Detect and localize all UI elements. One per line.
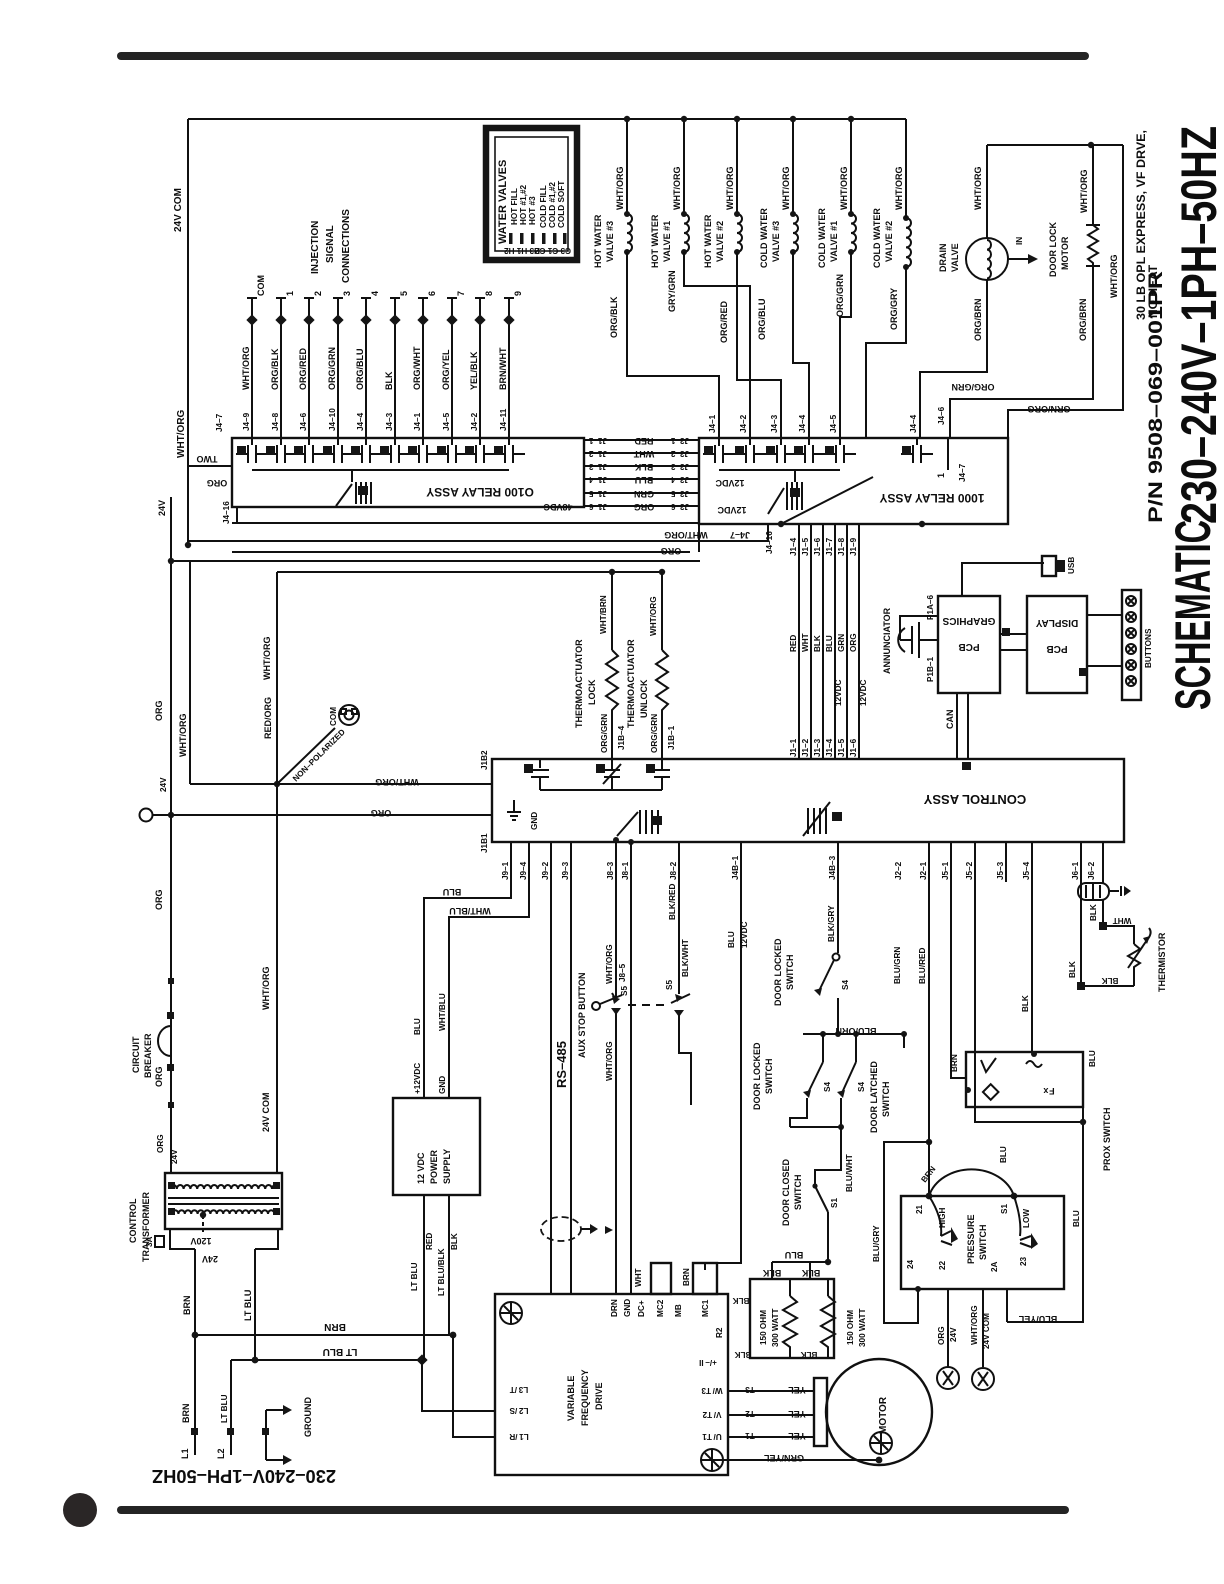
svg-text:J9–3: J9–3 — [561, 861, 570, 880]
wire injection signal 8 — [479, 298, 481, 445]
svg-text:J1–4: J1–4 — [588, 475, 607, 484]
svg-text:SUPPLY: SUPPLY — [442, 1149, 452, 1184]
relay K4 inside control — [807, 808, 809, 834]
svg-text:ORG/BLK: ORG/BLK — [270, 348, 280, 390]
svg-text:J4–11: J4–11 — [499, 408, 508, 431]
relay K5 inside control — [639, 810, 641, 834]
svg-text:ORG/GRY: ORG/GRY — [889, 288, 899, 330]
svg-text:V/ T2: V/ T2 — [702, 1410, 721, 1419]
svg-text:DOOR LOCK: DOOR LOCK — [1048, 222, 1058, 277]
svg-text:24V COM: 24V COM — [173, 188, 184, 232]
relay contact K3 — [776, 445, 778, 463]
wire valve return — [627, 252, 719, 438]
svg-text:COLD WATER: COLD WATER — [872, 208, 882, 268]
svg-text:PCB: PCB — [958, 641, 979, 652]
svg-text:J4–4: J4–4 — [909, 414, 918, 433]
svg-text:WHT/ORG: WHT/ORG — [605, 1041, 614, 1081]
RS-485 inline connector oval — [541, 1217, 581, 1241]
svg-text:WHT/ORG: WHT/ORG — [261, 967, 271, 1011]
svg-text:J4–2: J4–2 — [739, 414, 748, 433]
svg-text:WHT/ORG: WHT/ORG — [262, 637, 272, 681]
svg-text:GND: GND — [530, 812, 539, 830]
svg-text:BLU: BLU — [785, 1250, 804, 1260]
svg-text:12VDC: 12VDC — [740, 922, 749, 948]
wire WHT/ORG 24V COM to terminal B — [982, 1289, 984, 1367]
wire contact top stub — [839, 438, 841, 445]
svg-text:ANNUNCIATOR: ANNUNCIATOR — [882, 607, 892, 674]
svg-text:J4–8: J4–8 — [271, 412, 280, 431]
wire L1 into VFD — [453, 1335, 495, 1437]
door switch bus — [803, 1033, 904, 1035]
door closed switch S1 — [812, 1183, 817, 1188]
svg-text:6: 6 — [427, 291, 437, 296]
svg-text:J1–2: J1–2 — [588, 449, 607, 458]
svg-text:ORG/BRN: ORG/BRN — [1078, 299, 1088, 342]
svg-text:H3 H1 H2: H3 H1 H2 — [504, 246, 540, 255]
svg-text:24V: 24V — [157, 500, 167, 516]
relay contact K2 — [276, 445, 278, 463]
relay contact K10 — [504, 445, 506, 463]
dashed gang line — [628, 1004, 668, 1006]
svg-text:24V: 24V — [170, 1149, 179, 1164]
svg-text:J1–1: J1–1 — [789, 738, 798, 757]
svg-text:YEL/BLK: YEL/BLK — [469, 351, 479, 390]
svg-text:L2: L2 — [216, 1448, 226, 1459]
svg-text:BRN: BRN — [950, 1054, 959, 1072]
svg-text:J4–2: J4–2 — [470, 412, 479, 431]
svg-text:LT BLU: LT BLU — [410, 1262, 419, 1291]
svg-text:BLU/WHT: BLU/WHT — [845, 1154, 854, 1192]
svg-text:WHT/ORG: WHT/ORG — [375, 777, 419, 787]
svg-text:CONTROL: CONTROL — [128, 1198, 138, 1243]
svg-text:P1A–6: P1A–6 — [926, 595, 935, 620]
control transformer — [165, 1173, 282, 1229]
svg-text:ORG/BLU: ORG/BLU — [355, 349, 365, 391]
svg-text:R2: R2 — [715, 1327, 724, 1338]
svg-text:CONTROL ASSY: CONTROL ASSY — [923, 792, 1026, 807]
svg-text:USB: USB — [1067, 557, 1076, 574]
svg-text:C3 C1 C2: C3 C1 C2 — [535, 246, 571, 255]
wire injection signal 7 — [451, 298, 453, 445]
door latched switch S4c — [855, 1034, 857, 1062]
svg-text:DOOR LOCKED: DOOR LOCKED — [773, 938, 783, 1006]
wire GRN rail to control — [846, 524, 848, 759]
svg-text:AUX STOP BUTTON: AUX STOP BUTTON — [577, 972, 587, 1058]
svg-text:230–240V–1PH–50HZ: 230–240V–1PH–50HZ — [1171, 126, 1224, 524]
svg-text:HOT WATER: HOT WATER — [650, 214, 660, 268]
svg-text:J1–3: J1–3 — [813, 738, 822, 757]
aux stop switch S5b — [671, 994, 690, 1003]
svg-text:VALVE #1: VALVE #1 — [662, 221, 672, 262]
svg-text:BLU: BLU — [727, 931, 736, 948]
wire to door closed switch — [815, 1127, 841, 1184]
svg-text:J8–5: J8–5 — [618, 963, 627, 982]
svg-text:WHT/ORG: WHT/ORG — [894, 167, 904, 211]
svg-text:UNLOCK: UNLOCK — [639, 679, 649, 718]
prox switch feed BRN — [951, 842, 966, 1078]
svg-text:J1–5: J1–5 — [588, 489, 607, 498]
svg-text:ORG/GRN: ORG/GRN — [951, 382, 994, 392]
wire LT BLU AC feed — [231, 1359, 422, 1361]
svg-text:230–240V–1PH–50HZ: 230–240V–1PH–50HZ — [152, 1466, 336, 1486]
pressure dome — [929, 1169, 1014, 1196]
svg-text:8: 8 — [484, 291, 494, 296]
svg-text:T2: T2 — [745, 1409, 755, 1418]
contact bus — [719, 469, 840, 471]
svg-text:ORG/GRN: ORG/GRN — [835, 274, 845, 317]
svg-text:S5: S5 — [620, 986, 629, 996]
wire BLU rail to control — [834, 524, 836, 759]
svg-text:J4–1: J4–1 — [413, 412, 422, 431]
svg-text:ORG: ORG — [661, 546, 682, 556]
wires display to buttons — [1087, 614, 1122, 616]
svg-text:DOOR LOCKED: DOOR LOCKED — [752, 1042, 762, 1110]
wire L2 drop — [230, 1360, 232, 1455]
thermistor bulb — [1078, 883, 1109, 900]
svg-text:J1–6: J1–6 — [588, 502, 607, 511]
svg-text:PCB: PCB — [1046, 643, 1067, 654]
svg-text:BLU/YEL: BLU/YEL — [1018, 1314, 1057, 1324]
wire valve return — [840, 252, 851, 438]
svg-text:MOTOR: MOTOR — [1060, 236, 1070, 270]
svg-text:WHT/ORG: WHT/ORG — [1079, 170, 1089, 214]
ground wire GRN/YEL — [701, 1449, 723, 1471]
svg-text:J4–16: J4–16 — [765, 531, 774, 554]
water valves legend table — [486, 128, 577, 260]
aux stop button wire — [615, 842, 617, 1000]
relay contact K1 — [714, 445, 716, 463]
svg-text:J4–7: J4–7 — [215, 413, 224, 432]
svg-text:S4: S4 — [823, 1082, 832, 1092]
svg-text:BRN: BRN — [181, 1404, 191, 1424]
aux stop switch S5a — [592, 1002, 600, 1010]
svg-text:22: 22 — [938, 1260, 947, 1270]
svg-text:J1–5: J1–5 — [837, 738, 846, 757]
svg-text:24V COM: 24V COM — [982, 1313, 991, 1349]
svg-text:J1–7: J1–7 — [825, 537, 834, 556]
svg-text:J9–2: J9–2 — [541, 861, 550, 880]
svg-text:WHT/BLU: WHT/BLU — [449, 906, 491, 916]
display pcb box — [1027, 596, 1087, 693]
wire dome feed — [928, 1142, 930, 1196]
relay contact K9 — [475, 445, 477, 463]
resistor 150 ohm left — [789, 1279, 791, 1296]
svg-text:WHT/ORG: WHT/ORG — [725, 167, 735, 211]
svg-text:2: 2 — [313, 291, 323, 296]
brake resistor box — [750, 1279, 834, 1358]
wire injection signal 6 — [422, 298, 424, 445]
svg-text:J8–3: J8–3 — [606, 861, 615, 880]
capacitor S3 inside control — [539, 759, 541, 768]
bottom border rule — [117, 1506, 1069, 1514]
water valve HOT WATER VALVE #2 — [736, 119, 738, 214]
wire contact top stub — [718, 438, 720, 446]
wire right rail WHT/ORG — [1008, 145, 1123, 438]
wire RED rail to control — [798, 524, 800, 759]
svg-text:GND: GND — [438, 1076, 447, 1094]
svg-text:THERMISTOR: THERMISTOR — [1157, 932, 1167, 992]
svg-text:J4–5: J4–5 — [442, 412, 451, 431]
capacitor F1 — [654, 769, 670, 771]
svg-text:J4B–1: J4B–1 — [731, 855, 740, 880]
wire left rail from top corner — [187, 119, 189, 545]
svg-text:WHT/ORG: WHT/ORG — [781, 167, 791, 211]
svg-text:J4–16: J4–16 — [222, 501, 231, 524]
thermoactuator lock resistor — [609, 569, 615, 575]
svg-text:ORG: ORG — [156, 1134, 165, 1153]
svg-text:ORG: ORG — [154, 1066, 164, 1087]
wire under O100 relay — [232, 522, 699, 524]
svg-text:WHT/ORG: WHT/ORG — [970, 1305, 979, 1345]
wire left rail 24V vertical — [170, 497, 172, 1173]
wire contact top stub — [749, 438, 751, 445]
circuit breaker — [158, 1026, 171, 1056]
svg-text:YEL: YEL — [788, 1431, 806, 1441]
svg-text:ORG/GRN: ORG/GRN — [650, 714, 659, 753]
varistor F5 — [604, 769, 620, 771]
wire interconnect BLK — [584, 465, 699, 467]
wire WHT/ORG J4-7 horizontal — [188, 525, 768, 541]
node junction — [185, 542, 191, 548]
svg-text:24: 24 — [906, 1259, 915, 1269]
wire PS right lead to BRN — [448, 1195, 450, 1335]
svg-text:24V: 24V — [949, 1327, 958, 1342]
svg-text:BLK: BLK — [1068, 961, 1077, 978]
transformer center tap — [202, 1215, 204, 1232]
svg-text:3A: 3A — [145, 1236, 154, 1247]
node junction — [274, 781, 280, 787]
svg-text:RED: RED — [425, 1233, 434, 1250]
wire heater feed — [772, 1261, 828, 1263]
svg-text:COM: COM — [329, 707, 338, 726]
relay contact K7 — [418, 445, 420, 463]
terminal bumps on top — [651, 1263, 671, 1294]
svg-text:P1B–1: P1B–1 — [926, 657, 935, 682]
svg-text:BUTTONS: BUTTONS — [1144, 628, 1153, 668]
svg-text:WHT: WHT — [801, 633, 810, 652]
svg-text:BLK: BLK — [634, 462, 653, 472]
svg-text:WHT/BLU: WHT/BLU — [438, 993, 447, 1031]
wire bus drop to valve 6 — [905, 119, 907, 218]
svg-text:J1–8: J1–8 — [837, 537, 846, 556]
pressure switch levers — [929, 1196, 941, 1236]
svg-text:MC1: MC1 — [701, 1299, 710, 1317]
AC terminal circle — [140, 809, 153, 822]
node junction — [168, 812, 174, 818]
svg-text:BLK: BLK — [735, 1350, 752, 1359]
wire top bus 24V — [188, 118, 906, 120]
wire interconnect BLU — [584, 478, 699, 480]
svg-text:J4–9: J4–9 — [242, 412, 251, 431]
terminal A — [937, 1367, 959, 1389]
svg-text:J1–6: J1–6 — [813, 537, 822, 556]
svg-text:INJECTION: INJECTION — [310, 221, 321, 274]
svg-text:BRN: BRN — [682, 1268, 691, 1286]
svg-text:1: 1 — [936, 473, 946, 478]
svg-text:WHT/BRN: WHT/BRN — [599, 595, 608, 634]
relay contact K6 — [912, 445, 914, 463]
wire BRN secondary — [194, 1249, 196, 1455]
svg-text:23: 23 — [1019, 1256, 1028, 1266]
svg-text:HIGH: HIGH — [938, 1207, 947, 1228]
pressure switch box — [901, 1196, 1064, 1289]
wire ORG horizontal — [232, 551, 690, 553]
wire interconnect WHT — [584, 452, 699, 454]
svg-text:ORG/BLK: ORG/BLK — [609, 296, 619, 338]
svg-text:BLK/GRY: BLK/GRY — [827, 905, 836, 942]
wire interconnect GRN — [584, 492, 699, 494]
arrow marker on rail — [605, 1226, 613, 1234]
flow arrow — [1008, 258, 1028, 260]
svg-text:PRESSURE: PRESSURE — [966, 1214, 976, 1264]
svg-text:J4–4: J4–4 — [798, 414, 807, 433]
svg-text:BLK/WHT: BLK/WHT — [681, 939, 690, 977]
svg-text:MOTOR: MOTOR — [878, 1396, 889, 1434]
wire injection signal 4 — [365, 298, 367, 445]
svg-text:J4–4: J4–4 — [356, 412, 365, 431]
wire contact top stub — [916, 438, 918, 445]
svg-text:BLK: BLK — [733, 1296, 750, 1305]
wire BLK rail to control — [822, 524, 824, 759]
relay contact K2 — [745, 445, 747, 463]
CAN bus wires — [956, 693, 958, 759]
wire J9-4 to power supply WHT/BLU — [449, 842, 529, 1098]
svg-text:J1B–1: J1B–1 — [667, 725, 676, 750]
wire thermoactuator feed — [277, 571, 662, 573]
wire valve return — [684, 252, 750, 438]
svg-text:J1–1: J1–1 — [588, 436, 607, 445]
relay box O100 RELAY ASSY — [232, 438, 584, 507]
svg-text:RED/ORG: RED/ORG — [263, 697, 273, 739]
relay contact K3 — [304, 445, 306, 463]
wire interconnect RED — [584, 439, 699, 441]
svg-text:J4–6: J4–6 — [937, 406, 946, 425]
svg-text:SCHEMATIC: SCHEMATIC — [1165, 520, 1221, 710]
svg-text:J6–2: J6–2 — [1087, 861, 1096, 880]
page hole punch dot — [63, 1493, 97, 1527]
water valve HOT WATER VALVE #3 — [626, 119, 628, 214]
wire WHT/ORG to J1B2 — [190, 783, 492, 785]
contact common bus — [252, 469, 509, 471]
svg-text:SWITCH: SWITCH — [785, 955, 795, 991]
svg-text:LOW: LOW — [1022, 1209, 1031, 1228]
svg-text:WHT/ORG: WHT/ORG — [649, 596, 658, 636]
svg-text:J9–4: J9–4 — [519, 861, 528, 880]
svg-text:LT BLU/BLK: LT BLU/BLK — [437, 1248, 446, 1296]
svg-text:S1: S1 — [1000, 1204, 1009, 1214]
svg-text:J3–6: J3–6 — [670, 502, 689, 511]
svg-text:ORG/RED: ORG/RED — [298, 347, 308, 390]
relay contact K4 — [804, 445, 806, 463]
svg-text:ORG/WHT: ORG/WHT — [412, 346, 422, 390]
svg-text:1: 1 — [285, 291, 295, 296]
svg-text:J1–4: J1–4 — [789, 537, 798, 556]
svg-text:LT BLU: LT BLU — [323, 1346, 358, 1357]
fuse 3A — [155, 1236, 164, 1247]
svg-text:BLU/GRN: BLU/GRN — [893, 947, 902, 984]
svg-text:J1–3: J1–3 — [588, 462, 607, 471]
wire cap bus — [540, 789, 662, 791]
wire injection signal 1 — [280, 298, 282, 445]
svg-text:BLK: BLK — [1089, 904, 1098, 921]
svg-text:4: 4 — [370, 291, 380, 296]
svg-text:J2–1: J2–1 — [919, 861, 928, 880]
svg-text:L2 /S: L2 /S — [509, 1406, 528, 1415]
svg-text:DRAIN: DRAIN — [938, 244, 948, 273]
svg-text:GRN/YEL: GRN/YEL — [764, 1453, 805, 1463]
svg-text:TRANSFORMER: TRANSFORMER — [141, 1192, 151, 1262]
svg-text:J1–5: J1–5 — [801, 537, 810, 556]
svg-text:DOOR CLOSED: DOOR CLOSED — [781, 1158, 791, 1226]
svg-text:120V: 120V — [190, 1236, 211, 1246]
svg-text:WHT/ORG: WHT/ORG — [241, 347, 251, 391]
relay contact K6 — [390, 445, 392, 463]
svg-text:J5–1: J5–1 — [941, 861, 950, 880]
svg-text:300 WATT: 300 WATT — [771, 1308, 780, 1347]
svg-text:ORG/BLU: ORG/BLU — [757, 299, 767, 341]
svg-text:J3–1: J3–1 — [670, 436, 689, 445]
svg-text:DOOR LATCHED: DOOR LATCHED — [869, 1061, 879, 1133]
svg-text:ORG: ORG — [371, 808, 392, 818]
svg-text:COLD #1,#2: COLD #1,#2 — [548, 182, 557, 228]
svg-text:VALVE #2: VALVE #2 — [715, 221, 725, 262]
svg-text:COLD WATER: COLD WATER — [759, 208, 769, 268]
wire ORG 24V to terminal A — [947, 1289, 949, 1367]
wire injection signal 2 — [308, 298, 310, 445]
svg-text:SWITCH: SWITCH — [764, 1059, 774, 1095]
svg-text:THERMOACTUATOR: THERMOACTUATOR — [574, 639, 584, 728]
wire RS-485 B — [570, 842, 572, 1294]
svg-text:WHT/ORG: WHT/ORG — [176, 409, 187, 458]
svg-text:J3–3: J3–3 — [670, 462, 689, 471]
svg-text:J5–4: J5–4 — [1022, 861, 1031, 880]
svg-text:J8–1: J8–1 — [621, 861, 630, 880]
svg-text:BLU: BLU — [999, 1146, 1008, 1163]
svg-text:MB: MB — [674, 1304, 683, 1317]
svg-text:HOT FILL: HOT FILL — [510, 188, 519, 225]
svg-text:COM: COM — [256, 275, 266, 296]
svg-text:SWITCH: SWITCH — [881, 1082, 891, 1118]
svg-text:+/– II: +/– II — [699, 1358, 717, 1367]
svg-text:21: 21 — [915, 1204, 924, 1214]
wire drain valve return ORG/BRN — [920, 280, 987, 438]
grounding screw — [500, 1302, 522, 1324]
svg-text:THERMOACTUATOR: THERMOACTUATOR — [626, 639, 636, 728]
svg-text:DC+: DC+ — [637, 1300, 646, 1317]
wire ORG rail to control — [858, 524, 860, 759]
svg-text:CAN: CAN — [945, 710, 955, 730]
wire injection signal 3 — [337, 298, 339, 445]
svg-text:WHT/ORG: WHT/ORG — [615, 167, 625, 211]
svg-text:TWO: TWO — [197, 454, 218, 464]
svg-text:J4–10: J4–10 — [328, 408, 337, 431]
svg-text:WHT: WHT — [633, 449, 654, 459]
svg-text:J4–7: J4–7 — [730, 530, 750, 540]
svg-text:COLD FILL: COLD FILL — [539, 185, 548, 228]
door lock motor heater element — [1086, 224, 1100, 226]
power supply box 12VDC — [393, 1098, 480, 1195]
svg-text:5: 5 — [399, 291, 409, 296]
svg-text:DRIVE: DRIVE — [594, 1382, 604, 1410]
motor leads T3 T2 T1 — [728, 1390, 814, 1392]
svg-text:J8–2: J8–2 — [669, 861, 678, 880]
terminal B — [972, 1368, 994, 1390]
svg-text:+12VDC: +12VDC — [413, 1063, 422, 1094]
wire BLU 12VDC rail — [705, 842, 741, 1270]
wire 24V horizontal long — [171, 560, 700, 562]
svg-text:ORG: ORG — [849, 633, 858, 652]
svg-text:BREAKER: BREAKER — [143, 1033, 153, 1078]
